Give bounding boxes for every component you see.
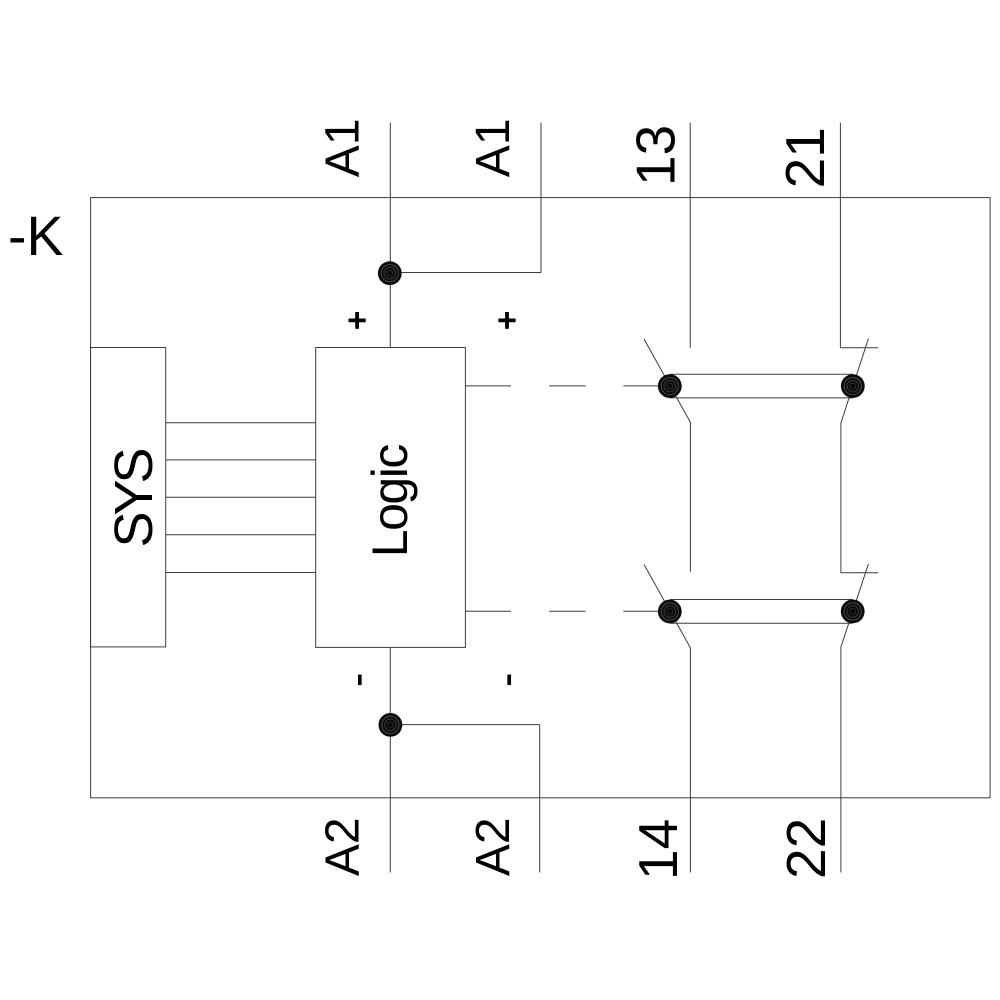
dashed actuator link lower seg1 (465, 610, 511, 612)
svg-text:A1: A1 (467, 118, 520, 177)
wire terminal A1 coil (389, 123, 391, 348)
bus wire 1 SYS-Logic (166, 422, 316, 424)
wire 22 to lower contact (840, 423, 842, 573)
minus sign coil A2 (358, 675, 362, 686)
linkage bar lower bottom line (670, 622, 853, 624)
dashed actuator link upper seg2 (549, 385, 585, 387)
svg-text:-K: -K (8, 205, 64, 267)
linkage bar lower top line (670, 599, 853, 601)
bus wire 3 SYS-Logic (166, 496, 316, 498)
contact NC blade lower (21-22) (841, 564, 869, 648)
dashed actuator link upper seg1 (465, 385, 511, 387)
contact dot lower left (658, 600, 682, 624)
contact NC stop bar upper (840, 347, 878, 349)
SYS block (91, 348, 166, 647)
dashed actuator link upper seg3 (623, 385, 658, 387)
svg-text:A1: A1 (316, 118, 369, 177)
contact dot lower right (841, 600, 865, 624)
contact NC blade upper (21-22) (841, 339, 868, 423)
wire terminal 21 (839, 123, 841, 348)
wire terminal 22 (840, 648, 842, 873)
svg-text:13: 13 (625, 125, 687, 186)
wire A1 jumper horizontal (390, 272, 541, 274)
wire A2 jumper horizontal (390, 724, 539, 726)
minus sign terminal A2 second (507, 675, 511, 686)
svg-text:14: 14 (627, 819, 689, 880)
Logic block (316, 348, 466, 648)
svg-text:Logic: Logic (362, 445, 418, 558)
contact NO blade lower (13-14) (644, 564, 691, 648)
wire terminal A2 second vertical (539, 725, 541, 873)
dashed actuator link lower seg3 (623, 610, 658, 612)
junction dot A1 (378, 261, 402, 285)
bus wire 2 SYS-Logic (166, 459, 316, 461)
plus sign terminal A1 second (498, 312, 515, 329)
contact dot upper left (658, 374, 682, 398)
contact NC stop bar lower (840, 572, 878, 574)
wire terminal 13 (689, 123, 691, 348)
wire terminal A1 second vertical (540, 123, 542, 273)
junction dot A2 (379, 713, 403, 737)
svg-text:22: 22 (775, 818, 837, 879)
wire terminal 14 (689, 648, 691, 873)
bus wire 4 SYS-Logic (166, 534, 316, 536)
svg-text:SYS: SYS (104, 449, 164, 547)
contact NO blade upper (13-14) (644, 339, 691, 423)
bus wire 5 SYS-Logic (166, 572, 316, 574)
wire 14 to lower contact (689, 423, 691, 572)
dashed actuator link lower seg2 (549, 610, 585, 612)
svg-text:A2: A2 (316, 817, 369, 876)
linkage bar upper top line (670, 373, 853, 375)
wire Logic to A2 (389, 647, 391, 872)
svg-text:21: 21 (774, 127, 836, 188)
linkage bar upper bottom line (670, 397, 853, 399)
contact dot upper right (841, 374, 865, 398)
svg-text:A2: A2 (467, 817, 520, 876)
relay outline box -K (91, 198, 991, 798)
plus sign coil A1 (349, 312, 366, 329)
